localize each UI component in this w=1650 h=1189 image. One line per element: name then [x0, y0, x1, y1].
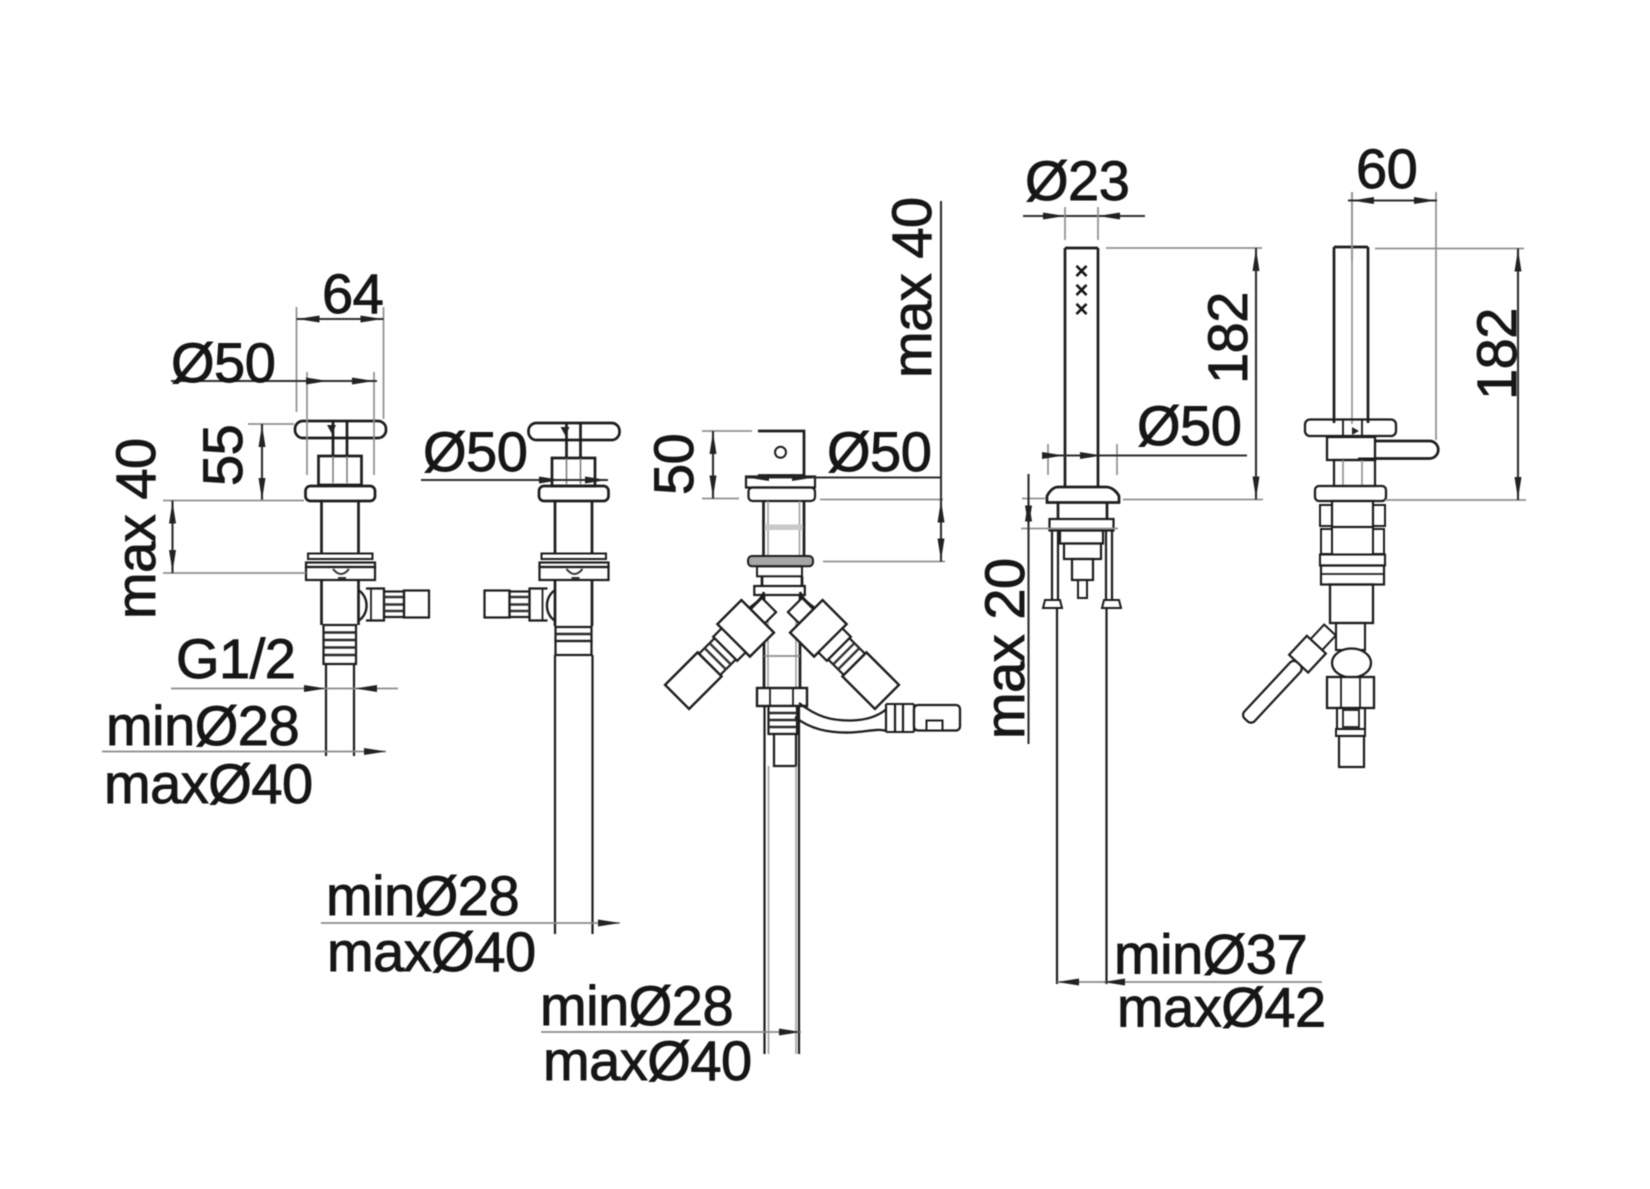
dimension 182 (F5 height): [1375, 249, 1528, 501]
F5 outlet tube tip: [1339, 736, 1364, 767]
dimension max 40 (F1 deck thickness): [104, 438, 306, 619]
fixture F3 mixer — square outlet block: [758, 431, 804, 476]
F5 angled supply pipe (down-left): [1237, 621, 1340, 729]
F4 base dome flange: [1047, 487, 1119, 503]
fixture F2 cross-handle tap — handle bar: [529, 423, 620, 440]
F5 mounting block and side tabs: [1320, 501, 1385, 554]
dimension max 20 (F4 deck thickness): [973, 474, 1118, 744]
F3 right supply arm (45deg): [779, 589, 903, 713]
F4 valve cartridge: [1060, 531, 1103, 599]
svg-text:60: 60: [1356, 137, 1417, 200]
F5 hex nut: [1327, 677, 1374, 708]
F3 washer (shaded): [748, 556, 813, 566]
F1 handle hub: [319, 456, 362, 485]
F5 neck below body: [1334, 460, 1375, 486]
F3 hose end connector: [914, 705, 960, 731]
svg-text:Ø50: Ø50: [1137, 394, 1241, 457]
label minØ28 / maxØ40 (F2 hole diameter): [321, 864, 620, 983]
F2 long inlet tube: [555, 655, 593, 934]
F3 hex nut: [757, 688, 807, 706]
F3 left supply arm (45deg): [661, 589, 785, 713]
label minØ37 / maxØ42 (F4 hole diameter): [1057, 923, 1326, 1039]
F3 base flange: [749, 488, 816, 502]
dimension 182 (F4 height): [1106, 248, 1263, 500]
svg-text:max 20: max 20: [973, 558, 1036, 739]
svg-text:minØ28: minØ28: [326, 864, 519, 927]
F1 handle front spoke (stem): [327, 421, 347, 456]
F2 handle front spoke: [561, 423, 581, 458]
F3 collar under washer: [757, 566, 802, 576]
svg-text:182: 182: [1196, 292, 1259, 384]
F5 ring: [1336, 729, 1365, 736]
F3 body tube upper: [764, 501, 805, 556]
F5 lower flange: [1315, 486, 1386, 501]
dimension 64 (F1 handle width): [297, 262, 384, 419]
F2 handle hub: [552, 458, 595, 486]
F2 threaded coupling: [556, 627, 592, 655]
svg-text:maxØ40: maxØ40: [104, 752, 313, 815]
F2 body tube: [555, 501, 592, 554]
F3 threaded tail G1/2: [769, 706, 798, 734]
F1 locknut: [306, 563, 375, 581]
dimension Ø50 (F1 flange): [171, 331, 377, 475]
F2 tube under locknut: [555, 580, 592, 626]
svg-text:minØ28: minØ28: [540, 974, 733, 1037]
F3 Y-body with shoulders: [741, 592, 823, 688]
F1 side outlet (angled connector, right): [358, 589, 429, 622]
F2 washer: [542, 554, 607, 560]
F2 side outlet (left): [485, 589, 556, 622]
fixture F1 cross-handle pillar tap — handle bar: [295, 421, 386, 438]
F3 long inlet tube: [765, 706, 800, 1054]
F5 valve body block: [1327, 437, 1375, 460]
F4 neck below flange: [1058, 503, 1107, 520]
svg-text:64: 64: [322, 262, 383, 325]
F5 locknut: [1321, 566, 1384, 585]
F2 locknut: [540, 563, 609, 581]
dimension Ø50 (F3 flange) with leader: [746, 420, 941, 483]
dimension max 40 (F3 deck thickness): [820, 197, 945, 561]
dimension Ø50 (F4 base) with leader: [1042, 394, 1247, 475]
F5 handle stem through flange: [1343, 420, 1362, 438]
F5 coupling block: [1337, 708, 1365, 729]
F5 neck to ball joint: [1336, 623, 1365, 650]
F1 tube between locknut and outlet: [322, 580, 359, 625]
dimension Ø50 (F2 flange) with leader: [421, 420, 608, 484]
svg-text:×: ×: [1074, 296, 1088, 323]
F3 flexible hose: [795, 703, 886, 733]
label minØ28 / maxØ40 (F3 hole diameter): [540, 974, 801, 1092]
F5 washer: [1320, 555, 1385, 566]
fixture F4 hand shower — spray column: [1065, 248, 1098, 486]
dimension 55 (F1 handle height): [191, 424, 294, 501]
svg-text:55: 55: [191, 425, 254, 486]
F4 mounting bracket rods: [1043, 531, 1121, 609]
svg-text:maxØ40: maxØ40: [543, 1029, 752, 1092]
F4 supply tube: [1057, 608, 1107, 984]
label G1/2 (F1 thread) with leader: [171, 627, 398, 692]
F1 body tube: [322, 501, 359, 554]
svg-text:182: 182: [1465, 308, 1528, 400]
svg-text:50: 50: [642, 434, 705, 495]
svg-text:Ø50: Ø50: [827, 420, 931, 483]
F3 hose coupling rings: [886, 703, 914, 733]
F4 mounting plate: [1050, 519, 1114, 531]
F3 mounting ring: [754, 576, 805, 595]
F1 base flange: [306, 486, 376, 501]
F3 collar ring: [746, 477, 815, 488]
F1 washer under deck: [308, 554, 373, 560]
F4 spray nozzles symbol: [1074, 258, 1088, 323]
svg-text:minØ28: minØ28: [106, 694, 299, 757]
F5 lever handle (to right): [1358, 441, 1438, 459]
svg-text:maxØ42: maxØ42: [1117, 976, 1326, 1039]
svg-text:maxØ40: maxØ40: [327, 920, 536, 983]
F5 ball joint: [1332, 649, 1371, 678]
dimension 50 (F3 outlet height): [642, 431, 752, 499]
svg-text:G1/2: G1/2: [176, 627, 295, 690]
dimension 60 (F5 lever reach): [1348, 137, 1437, 440]
svg-text:Ø50: Ø50: [423, 420, 527, 483]
F3 coupling block: [774, 734, 796, 766]
svg-text:max 40: max 40: [880, 197, 943, 378]
svg-text:max 40: max 40: [104, 438, 167, 619]
svg-text:Ø50: Ø50: [171, 331, 275, 394]
F5 valve lower body: [1330, 585, 1373, 624]
fixture F5 side view — column: [1334, 192, 1368, 424]
F1 G1/2 threaded tail: [324, 625, 357, 664]
F5 holder flange: [1305, 420, 1396, 437]
F1 inlet tail tube: [326, 664, 354, 756]
svg-text:Ø23: Ø23: [1025, 149, 1129, 212]
label minØ28 / maxØ40 (F1 hole diameter): [102, 694, 386, 815]
F2 base flange: [539, 486, 609, 501]
dimension Ø23 (F4 shower diameter): [1023, 149, 1145, 240]
